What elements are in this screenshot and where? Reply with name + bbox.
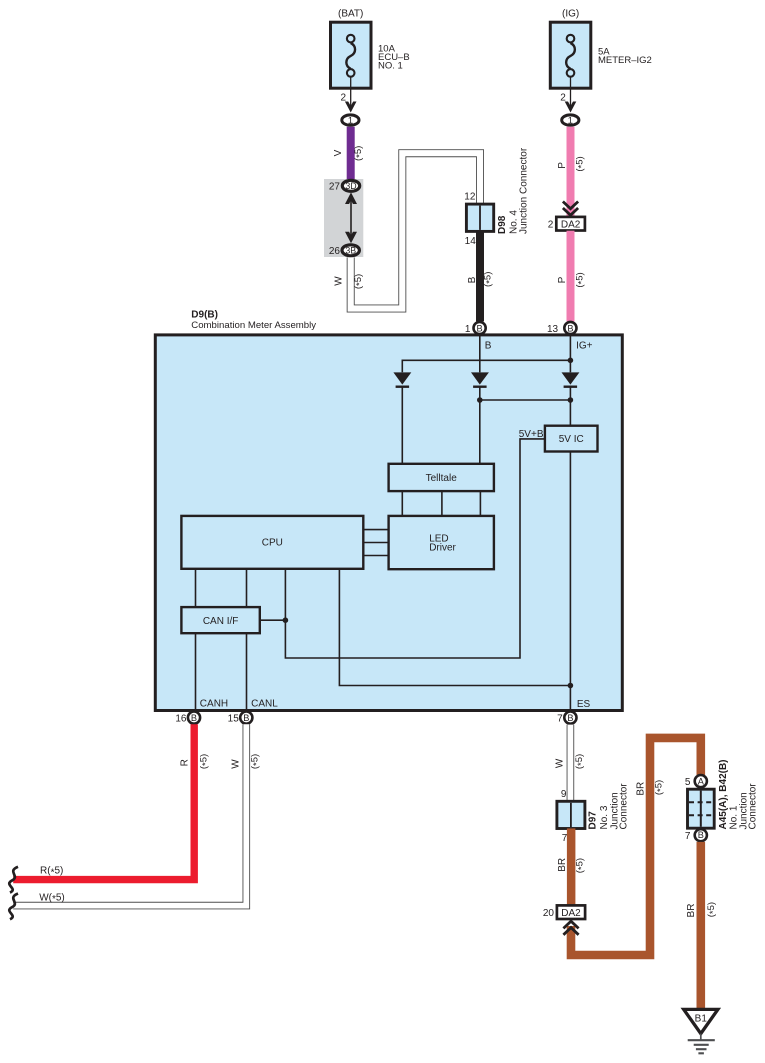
svg-text:B: B <box>567 323 573 333</box>
wire CANH <box>196 633 229 710</box>
svg-text:26: 26 <box>329 246 341 257</box>
svg-text:A45(A), B42(B): A45(A), B42(B) <box>718 759 729 829</box>
junction block 3D/3B (instrument panel wire) <box>324 179 363 257</box>
pin 1 (B) of meter <box>465 322 486 335</box>
wire diode D1 cathode to Telltale <box>401 387 403 464</box>
pin 16 (B) of meter <box>175 712 200 725</box>
svg-text:(*5): (*5) <box>353 146 366 161</box>
connector 3D pin 27 <box>329 180 360 192</box>
svg-text:A: A <box>698 776 705 786</box>
svg-text:P: P <box>557 162 568 169</box>
svg-text:No. 3: No. 3 <box>599 805 610 829</box>
svg-text:Combination Meter Assembly: Combination Meter Assembly <box>191 320 316 331</box>
bus lines CPU to LED driver <box>363 530 388 556</box>
svg-text:P: P <box>557 276 568 283</box>
wire W (white) CANL <box>13 724 262 905</box>
wire IG+ feed to diode <box>569 335 571 372</box>
pin 13 (B) of meter <box>547 322 577 335</box>
connector 3B pin 26 <box>329 245 360 257</box>
ground point B1 <box>684 1009 718 1033</box>
svg-text:B: B <box>485 340 492 351</box>
combination meter assembly D9(B) <box>155 309 622 710</box>
wire joining D2/D3 cathodes <box>477 397 573 403</box>
wire BR (brown) DA2 to A45 <box>571 738 701 955</box>
svg-text:(*5): (*5) <box>575 858 588 873</box>
wire ES from 5V IC <box>568 452 591 711</box>
svg-text:13: 13 <box>547 324 559 335</box>
svg-text:12: 12 <box>464 191 476 202</box>
svg-text:(IG): (IG) <box>562 9 579 20</box>
pin 5 (A) of A45 <box>685 775 707 788</box>
Telltale block <box>389 464 494 491</box>
splice chevron out of DA2 <box>563 921 578 935</box>
fuse (IG) 5A METER-IG2 <box>550 9 652 89</box>
wire CPU to ES node <box>339 569 570 686</box>
pin 15 (B) of meter <box>228 712 253 725</box>
wire BR (brown) D97 to DA2 <box>557 828 587 905</box>
wire P (pink) upper <box>557 127 588 218</box>
svg-text:1: 1 <box>348 116 353 126</box>
svg-text:B: B <box>243 713 249 723</box>
wire from fuse IG pin 2 <box>560 77 576 112</box>
connector terminal 1 (IG) <box>562 115 579 126</box>
svg-text:V: V <box>333 149 344 156</box>
wire CPU to CAN I/F (left) <box>195 569 197 607</box>
double arrow link 3D-3B <box>345 192 357 243</box>
svg-text:W(*5): W(*5) <box>39 892 65 905</box>
svg-text:B: B <box>567 713 573 723</box>
junction connector A45(A), B42(B) No.1 <box>688 759 759 829</box>
svg-text:B1: B1 <box>695 1014 708 1025</box>
LED Driver block <box>389 516 494 569</box>
svg-text:(*5): (*5) <box>483 272 496 287</box>
svg-text:20: 20 <box>543 908 555 919</box>
pin 7 (B) of meter <box>557 712 576 725</box>
splice chevron into DA2 <box>563 202 578 216</box>
svg-text:(*5): (*5) <box>575 272 588 287</box>
svg-text:2: 2 <box>548 219 554 230</box>
svg-text:1: 1 <box>568 116 573 126</box>
wire W (white) ES to D97 <box>555 725 587 802</box>
svg-text:D9(B): D9(B) <box>191 309 218 320</box>
connector terminal 1 (BAT) <box>342 115 359 126</box>
svg-text:ES: ES <box>577 699 591 710</box>
svg-text:3D: 3D <box>345 181 356 191</box>
pin 7 (B) of A45 <box>685 829 707 842</box>
svg-text:R(*5): R(*5) <box>40 866 63 879</box>
svg-text:Connector: Connector <box>619 783 630 830</box>
svg-text:9: 9 <box>561 789 567 800</box>
svg-text:R: R <box>180 759 191 766</box>
node B label <box>485 340 492 351</box>
junction connector D98 No.4 pins 12/14 <box>464 147 529 247</box>
svg-text:CANH: CANH <box>200 699 228 710</box>
svg-text:B: B <box>191 713 197 723</box>
diode D1 <box>393 372 411 386</box>
svg-text:(*5): (*5) <box>353 274 366 289</box>
svg-text:B: B <box>477 323 483 333</box>
diode D2 <box>471 372 489 386</box>
CPU block <box>181 516 363 569</box>
svg-text:W: W <box>334 276 345 286</box>
svg-text:Telltale: Telltale <box>426 473 458 484</box>
wire CPU to CAN I/F (right) <box>246 569 248 607</box>
CAN I/F block <box>181 607 259 633</box>
node IG+ label <box>576 340 593 351</box>
wire diode D2 cathode to Telltale <box>479 387 481 464</box>
svg-text:IG+: IG+ <box>576 340 593 351</box>
svg-text:(*5): (*5) <box>654 780 667 795</box>
svg-text:BR: BR <box>557 858 568 872</box>
svg-text:7: 7 <box>685 831 691 842</box>
svg-text:B: B <box>698 830 704 840</box>
wire V (violet) <box>333 127 366 180</box>
svg-text:27: 27 <box>329 181 341 192</box>
wire B feed to diode <box>479 335 481 372</box>
svg-text:METER–IG2: METER–IG2 <box>598 55 652 66</box>
svg-text:16: 16 <box>175 714 187 725</box>
svg-text:(BAT): (BAT) <box>338 9 363 20</box>
wire P (pink) lower <box>557 231 588 322</box>
wire CANL <box>247 633 279 710</box>
break symbol W wire <box>9 894 18 920</box>
wire B (black) from D98 to meter <box>467 231 495 321</box>
wire from fuse BAT pin 2 <box>340 77 356 112</box>
5V IC block <box>519 426 598 452</box>
svg-text:1: 1 <box>465 324 471 335</box>
svg-text:5V IC: 5V IC <box>559 434 584 445</box>
svg-text:BR: BR <box>686 904 697 918</box>
shielded connector DA2 pin 2 <box>548 217 585 231</box>
wire BR (brown) A45 to ground <box>686 842 719 1009</box>
svg-text:CPU: CPU <box>262 537 283 548</box>
svg-text:Driver: Driver <box>429 543 456 554</box>
svg-text:DA2: DA2 <box>561 219 581 230</box>
svg-text:BR: BR <box>636 782 647 796</box>
wire IG+ branch to diode D1 <box>402 358 573 373</box>
wires Telltale to LED driver <box>402 491 480 516</box>
svg-text:DA2: DA2 <box>561 908 581 919</box>
svg-text:7: 7 <box>557 714 563 725</box>
svg-text:(*5): (*5) <box>575 156 588 171</box>
shielded connector DA2 pin 20 <box>543 905 585 919</box>
junction connector D97 No.3 pins 9/7 <box>557 783 630 844</box>
svg-text:14: 14 <box>465 236 477 247</box>
svg-text:3B: 3B <box>345 245 356 255</box>
svg-text:NO. 1: NO. 1 <box>378 60 403 71</box>
wire CAN I/F to CPU branch node <box>260 617 288 623</box>
svg-text:(*5): (*5) <box>574 754 587 769</box>
fuse (BAT) 10A ECU-B NO.1 <box>331 9 410 89</box>
svg-text:(*5): (*5) <box>199 754 212 769</box>
svg-text:(*5): (*5) <box>706 902 719 917</box>
svg-text:(*5): (*5) <box>250 754 263 769</box>
diode D3 <box>562 372 580 386</box>
wire W (white) from 3B to D98 <box>334 153 481 308</box>
svg-text:CAN I/F: CAN I/F <box>203 616 239 627</box>
svg-text:B: B <box>467 276 478 283</box>
wire diode D3 cathode to 5V IC <box>569 387 571 426</box>
svg-text:W: W <box>555 758 566 768</box>
svg-text:CANL: CANL <box>251 699 278 710</box>
svg-text:7: 7 <box>562 833 568 844</box>
wire R (red) CANH <box>13 724 211 879</box>
svg-text:W: W <box>231 759 242 769</box>
break symbol R wire <box>9 867 18 893</box>
svg-text:15: 15 <box>228 714 240 725</box>
svg-text:Connector: Connector <box>747 783 758 830</box>
svg-text:Junction Connector: Junction Connector <box>519 147 530 234</box>
ground symbol <box>688 1034 715 1054</box>
svg-text:5: 5 <box>685 777 691 788</box>
svg-text:D97: D97 <box>587 811 598 830</box>
svg-text:D98: D98 <box>497 215 508 234</box>
wire CPU to 5V+B node <box>285 439 545 658</box>
